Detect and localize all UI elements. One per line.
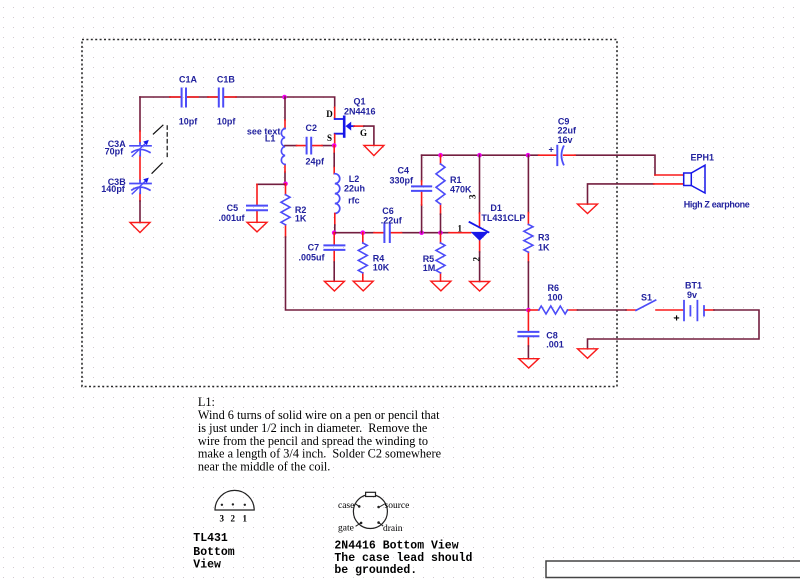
node junction S/C2/L2: [332, 143, 337, 148]
svg-text:1: 1: [458, 223, 463, 233]
svg-text:2N4416: 2N4416: [344, 107, 376, 117]
2N4416 Bottom View caption: [334, 540, 472, 578]
svg-text:Q1: Q1: [354, 97, 366, 107]
svg-text:.001: .001: [546, 340, 564, 350]
svg-text:16v: 16v: [558, 135, 573, 145]
capacitor C1A: [179, 75, 199, 127]
svg-text:2: 2: [472, 257, 482, 262]
ground (D1): [470, 282, 490, 292]
svg-text:R6: R6: [548, 283, 560, 293]
2N4416 pin labels: [338, 501, 409, 534]
svg-text:D1: D1: [490, 203, 502, 213]
svg-text:C1B: C1B: [217, 75, 236, 85]
svg-text:70pf: 70pf: [105, 147, 125, 157]
wire node to L2: [333, 146, 335, 174]
node junction R3/C8/R6: [526, 308, 531, 313]
svg-text:10pf: 10pf: [217, 117, 237, 127]
capacitor C7: [299, 233, 345, 282]
ground (C5): [247, 222, 267, 232]
ground (earphone return): [578, 204, 598, 213]
resistor R1: [436, 155, 472, 233]
wire pin stubs top rail: [170, 97, 335, 119]
node junction R1 top: [438, 153, 443, 158]
wire L1 column: [284, 97, 286, 184]
transistor Q1 2N4416: [326, 97, 375, 143]
node junction L2/C7 rail: [332, 230, 337, 235]
wire top rail left: [140, 96, 236, 98]
svg-text:2N4416 Bottom View: 2N4416 Bottom View: [334, 540, 458, 553]
svg-text:High Z earphone: High Z earphone: [684, 200, 750, 210]
wire L2 bottom: [334, 214, 336, 226]
svg-text:1: 1: [243, 514, 248, 524]
svg-text:1K: 1K: [295, 214, 307, 224]
wire earphone bottom: [588, 184, 654, 204]
svg-text:10pf: 10pf: [179, 117, 199, 127]
capacitor C2: [306, 123, 326, 167]
svg-text:.22uf: .22uf: [381, 216, 403, 226]
svg-text:wire from the pencil and sprea: wire from the pencil and spread the wind…: [198, 434, 428, 448]
wire Q1 source to node: [334, 135, 336, 146]
svg-text:TL431: TL431: [193, 532, 228, 545]
capacitor C4: [390, 166, 432, 191]
schematic dashed border: [82, 40, 617, 387]
svg-text:C4: C4: [398, 166, 410, 176]
wire C5 elbow: [257, 183, 286, 185]
svg-text:is just under 1/2 inch in diam: is just under 1/2 inch in diameter. Remo…: [198, 421, 428, 435]
node junction R4: [361, 230, 366, 235]
wire C2 tap: [285, 145, 334, 147]
switch S1: [636, 293, 656, 311]
wire Q1 gate to ground: [354, 125, 364, 127]
ground (C3B): [130, 223, 150, 233]
svg-text:G: G: [360, 128, 367, 138]
svg-text:.001uf: .001uf: [219, 213, 246, 223]
wire C4 column: [421, 155, 423, 233]
svg-text:BT1: BT1: [685, 281, 702, 291]
node junction L1/C5/R2: [283, 182, 288, 187]
resistor R6: [539, 283, 568, 314]
capacitor C9 (polarized): [549, 116, 578, 165]
TL431 Bottom View caption: [193, 532, 235, 572]
ground (C7): [324, 281, 344, 291]
resistor R5: [423, 233, 445, 282]
capacitor C3A (variable): [105, 139, 151, 157]
svg-text:EPH1: EPH1: [691, 153, 715, 163]
capacitor C8: [518, 310, 563, 359]
inductor L2: [335, 174, 365, 214]
battery BT1: [674, 281, 705, 325]
wire R2 bottom to bottom rail: [286, 237, 529, 310]
node junction top rail to L1: [282, 95, 287, 100]
note L1 winding instructions: [198, 395, 442, 474]
svg-text:be grounded.: be grounded.: [334, 564, 417, 577]
resistor R4: [358, 233, 390, 282]
svg-text:source: source: [385, 501, 410, 511]
ground (R5): [431, 281, 451, 291]
svg-text:1M: 1M: [423, 263, 436, 273]
svg-text:3: 3: [220, 514, 225, 524]
2N4416 package outline: [353, 492, 387, 528]
capacitor C5: [219, 203, 268, 223]
wire battery return: [705, 309, 714, 311]
svg-text:140pf: 140pf: [101, 184, 126, 194]
svg-text:TL431CLP: TL431CLP: [481, 213, 525, 223]
svg-text:D: D: [326, 109, 333, 119]
svg-text:.005uf: .005uf: [299, 253, 326, 263]
svg-text:S: S: [327, 133, 332, 143]
svg-text:drain: drain: [383, 524, 403, 534]
speaker EPH1: [684, 153, 750, 210]
svg-text:L2: L2: [349, 174, 360, 184]
diode D1 TL431CLP: [458, 155, 526, 281]
svg-text:9v: 9v: [687, 290, 697, 300]
svg-text:near the middle of the coil.: near the middle of the coil.: [198, 460, 331, 474]
svg-text:3: 3: [468, 194, 478, 199]
svg-text:C2: C2: [306, 123, 318, 133]
wire power rail: [528, 309, 538, 311]
svg-text:L1: L1: [265, 134, 276, 144]
wire mid rail: [334, 232, 449, 234]
svg-text:24pf: 24pf: [306, 157, 326, 167]
node junction R1/R5 rail: [438, 230, 443, 235]
TL431 pin numbers 3 2 1: [220, 514, 248, 524]
svg-text:gate: gate: [338, 524, 354, 534]
svg-text:case: case: [338, 501, 354, 511]
svg-text:C5: C5: [227, 203, 239, 213]
gang coupling dashed link: [152, 125, 167, 173]
svg-text:rfc: rfc: [348, 196, 360, 206]
svg-text:Bottom: Bottom: [193, 546, 235, 559]
resistor R2: [281, 184, 307, 237]
node junction D1 top: [477, 153, 482, 158]
svg-text:100: 100: [548, 293, 563, 303]
ground (C8): [519, 359, 539, 368]
svg-text:C1A: C1A: [179, 75, 198, 85]
resistor R3: [524, 155, 550, 310]
svg-text:330pf: 330pf: [390, 175, 415, 185]
capacitor C1B: [217, 75, 237, 127]
svg-text:470K: 470K: [450, 184, 472, 194]
svg-text:1K: 1K: [538, 243, 550, 253]
svg-text:R3: R3: [538, 233, 550, 243]
svg-text:View: View: [193, 559, 221, 572]
TL431 package outline: [215, 490, 254, 510]
node junction C4 rail: [419, 230, 424, 235]
node junction R3 top: [526, 153, 531, 158]
ground (R4): [353, 281, 373, 291]
svg-text:S1: S1: [641, 293, 652, 303]
svg-text:make a length of 3/4 inch. So: make a length of 3/4 inch. Solder C2 som…: [198, 447, 442, 461]
svg-text:+: +: [674, 313, 680, 325]
svg-text:+: +: [549, 145, 554, 155]
svg-text:L1:: L1:: [198, 395, 215, 409]
svg-text:22uh: 22uh: [344, 184, 365, 194]
capacitor C3B (variable): [101, 177, 151, 194]
svg-text:C7: C7: [308, 242, 320, 252]
title block: [546, 561, 800, 578]
ground (battery return): [578, 349, 598, 359]
svg-text:10K: 10K: [373, 262, 390, 272]
svg-text:2: 2: [231, 514, 236, 524]
wire left column: [139, 97, 141, 131]
inductor L1: [247, 126, 285, 164]
wire top rail: [422, 155, 655, 175]
svg-text:Wind 6 turns of solid wire on: Wind 6 turns of solid wire on a pen or p…: [198, 408, 440, 422]
ground (Q1 gate): [364, 145, 384, 155]
capacitor C6: [381, 206, 403, 242]
